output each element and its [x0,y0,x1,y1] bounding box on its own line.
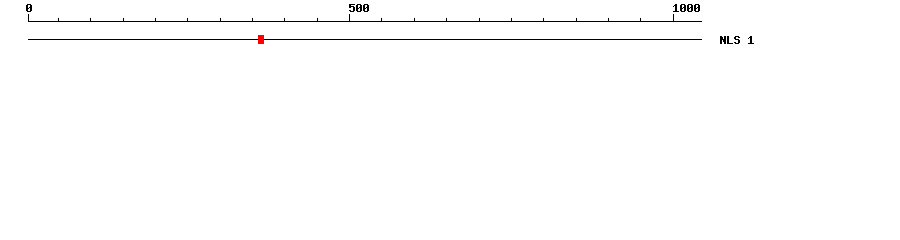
ruler axis line [28,21,702,22]
ruler label "500" [349,4,355,5]
minor tick x=317 [317,18,318,21]
minor tick x=90 [90,18,91,21]
minor tick x=220 [220,18,221,21]
minor tick x=155 [155,18,156,21]
major tick 0 [28,14,29,21]
minor tick x=446 [446,18,447,21]
minor tick x=123 [123,18,124,21]
minor tick x=252 [252,18,253,21]
ruler label "0" [27,4,31,5]
minor tick x=284 [284,18,285,21]
minor tick x=608 [608,18,609,21]
minor tick x=479 [479,18,480,21]
minor tick x=543 [543,18,544,21]
minor tick x=511 [511,18,512,21]
feature label "NLS 1" [720,36,722,37]
major tick 500 [349,14,350,21]
minor tick x=576 [576,18,577,21]
minor tick x=640 [640,18,641,21]
minor tick x=187 [187,18,188,21]
minor tick x=58 [58,18,59,21]
minor tick x=381 [381,18,382,21]
ruler label "1000" [675,4,677,5]
minor tick x=414 [414,18,415,21]
background [0,0,900,58]
sequence feature line [28,39,702,40]
NLS feature box (red) [258,35,264,44]
major tick 1000 [673,14,674,21]
